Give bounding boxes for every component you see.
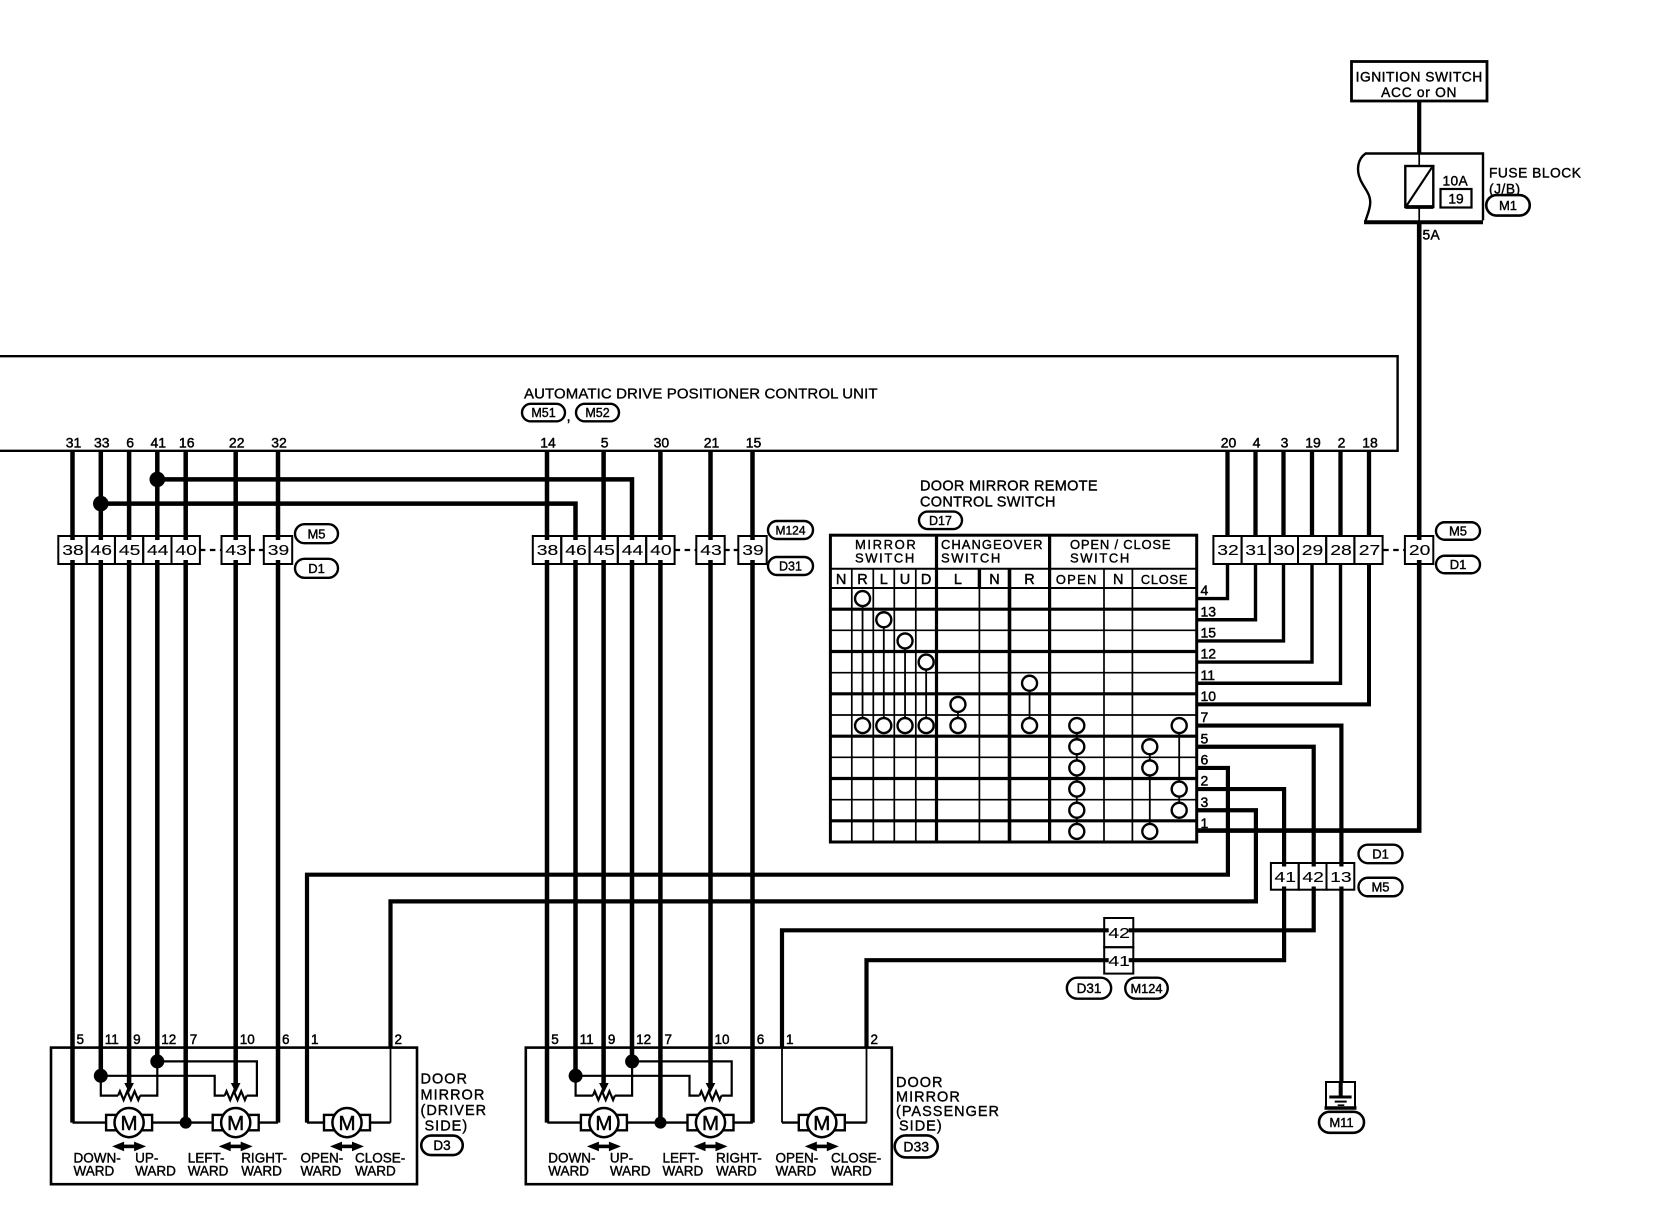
svg-text:30: 30 — [1273, 543, 1295, 559]
connector label M124 (bottom) — [1125, 978, 1168, 999]
svg-text:6: 6 — [1201, 752, 1209, 768]
svg-text:CLOSE: CLOSE — [1141, 572, 1188, 587]
svg-text:10: 10 — [1201, 688, 1217, 704]
svg-text:D1: D1 — [1372, 847, 1389, 862]
svg-text:R: R — [857, 572, 867, 588]
svg-text:46: 46 — [91, 543, 113, 559]
svg-text:1: 1 — [311, 1032, 319, 1047]
svg-text:WARD: WARD — [831, 1164, 872, 1179]
svg-text:L: L — [880, 572, 888, 588]
left/right potentiometer (driver side) — [101, 1061, 257, 1100]
svg-text:27: 27 — [1359, 543, 1381, 559]
svg-text:18: 18 — [1362, 435, 1378, 451]
svg-text:41: 41 — [1275, 870, 1297, 886]
wiper arrow pin9 (passenger side) — [599, 1083, 609, 1093]
connector label D3 — [421, 1136, 463, 1156]
wire pin 3 down to connector — [1281, 451, 1285, 536]
wire pin 2 down to connector — [1338, 451, 1342, 536]
svg-text:20: 20 — [1409, 543, 1431, 559]
svg-text:(DRIVER: (DRIVER — [421, 1103, 488, 1119]
wire pin 19 down to connector — [1310, 451, 1314, 536]
open/close motor wires (passenger side) — [782, 1048, 867, 1123]
svg-text:M52: M52 — [585, 406, 609, 420]
connector cell 39 (passenger) — [738, 536, 766, 564]
svg-text:16: 16 — [179, 435, 195, 451]
svg-text:OPEN: OPEN — [1056, 572, 1098, 587]
wire fuse block down through connector 20 to switch row 1 — [1197, 222, 1420, 830]
connector label D31 (mid) — [768, 557, 813, 575]
fuse block box J/B — [1358, 154, 1483, 223]
svg-text:WARD: WARD — [610, 1164, 651, 1179]
svg-text:7: 7 — [665, 1032, 673, 1047]
svg-text:WARD: WARD — [716, 1164, 757, 1179]
connector label M1 — [1486, 195, 1530, 216]
wire switch row 12 to connector — [1197, 564, 1312, 662]
connector cell 20 — [1405, 536, 1433, 564]
svg-text:M: M — [338, 1112, 355, 1135]
svg-text:7: 7 — [190, 1032, 198, 1047]
left/right motor M (passenger side) — [688, 1108, 734, 1137]
svg-text:D3: D3 — [433, 1138, 450, 1153]
svg-text:M51: M51 — [531, 406, 555, 420]
wire pin5 to passenger mirror pin9 — [601, 451, 606, 1083]
wire switch row 15 to connector — [1197, 564, 1284, 641]
junction node on pin33 wire — [93, 496, 109, 512]
svg-text:4: 4 — [1201, 582, 1209, 598]
svg-text:M124: M124 — [1130, 981, 1162, 996]
connector M124/D31 cells 38 46 45 44 40 (passenger) — [533, 536, 675, 564]
wire pin21 to passenger mirror pin10 — [708, 451, 713, 1083]
svg-text:1: 1 — [1201, 815, 1209, 831]
svg-text:4: 4 — [1253, 435, 1261, 451]
connector label M5 (lower) — [1359, 878, 1403, 897]
connector label D1 (lower) — [1359, 845, 1403, 864]
wire pin32 to driver mirror pin6 — [276, 451, 281, 1123]
svg-text:SWITCH: SWITCH — [855, 551, 916, 566]
svg-text:13: 13 — [1201, 603, 1217, 619]
connector cell 39 (driver) — [264, 536, 292, 564]
svg-text:U: U — [900, 572, 910, 588]
svg-text:32: 32 — [1217, 543, 1239, 559]
svg-text:DOOR: DOOR — [896, 1075, 944, 1091]
fuse number box 19 — [1441, 189, 1472, 208]
door mirror module box (passenger side) — [526, 1048, 892, 1185]
svg-text:30: 30 — [654, 435, 670, 451]
svg-text:M: M — [813, 1112, 830, 1135]
svg-text:WARD: WARD — [135, 1164, 176, 1179]
svg-text:IGNITION SWITCH: IGNITION SWITCH — [1356, 70, 1483, 85]
motor direction labels (driver side) — [74, 1151, 406, 1179]
wire pin30 to passenger mirror pin7 — [658, 451, 663, 1123]
svg-text:M: M — [227, 1112, 244, 1135]
wire switch row 6 to driver mirror pin1 — [307, 768, 1228, 1123]
direction arrow (driver side) — [330, 1142, 364, 1152]
direction arrow (passenger side) — [694, 1142, 728, 1152]
svg-text:39: 39 — [268, 543, 290, 559]
svg-text:5: 5 — [1201, 730, 1209, 746]
svg-text:21: 21 — [704, 435, 720, 451]
ignition switch box ACC or ON — [1352, 62, 1488, 102]
svg-text:N: N — [836, 572, 846, 588]
connector D31/M124 stacked cells 42 41 — [1104, 918, 1133, 974]
svg-text:32: 32 — [271, 435, 287, 451]
svg-text:WARD: WARD — [355, 1164, 396, 1179]
svg-text:41: 41 — [1108, 954, 1130, 970]
svg-text:N: N — [1113, 572, 1123, 588]
ground label M11 — [1319, 1112, 1364, 1133]
svg-text:1: 1 — [786, 1032, 794, 1047]
svg-text:FUSE BLOCK: FUSE BLOCK — [1489, 166, 1582, 181]
svg-text:46: 46 — [565, 543, 587, 559]
svg-text:43: 43 — [225, 543, 247, 559]
svg-text:N: N — [989, 572, 999, 588]
link wire from pin41 junction to connector 44 / passenger pin12 — [157, 479, 632, 1061]
svg-text:20: 20 — [1221, 435, 1237, 451]
svg-text:L: L — [954, 572, 962, 588]
wire pin31 to driver mirror pin5 — [70, 451, 75, 1123]
svg-text:10: 10 — [240, 1032, 255, 1047]
wire switch row 11 to connector — [1197, 564, 1341, 683]
svg-text:38: 38 — [62, 543, 84, 559]
svg-text:11: 11 — [1201, 667, 1216, 683]
wire out of fuse — [1418, 207, 1420, 222]
wire switch row 10 to connector — [1197, 564, 1369, 704]
dashed link 43-39 (driver) — [250, 549, 264, 551]
up/down potentiometer (driver side) — [101, 1061, 158, 1100]
up/down potentiometer (passenger side) — [576, 1061, 633, 1100]
svg-text:D17: D17 — [929, 514, 952, 528]
svg-text:10A: 10A — [1443, 174, 1469, 189]
dashed link 40-43 (passenger) — [675, 549, 697, 551]
svg-text:40: 40 — [650, 543, 672, 559]
svg-text:D: D — [921, 572, 931, 588]
connector label D1 (right) — [1436, 556, 1480, 574]
up/down motor M (driver side) — [106, 1108, 152, 1137]
svg-text:WARD: WARD — [241, 1164, 282, 1179]
svg-text:SWITCH: SWITCH — [941, 551, 1002, 566]
svg-text:11: 11 — [580, 1032, 594, 1047]
svg-text:WARD: WARD — [301, 1164, 342, 1179]
wire pin 18 down to connector — [1367, 451, 1371, 536]
wire pin16 to driver mirror pin7 — [183, 451, 188, 1123]
svg-text:42: 42 — [1302, 870, 1324, 886]
open/close motor M (driver side) — [324, 1108, 370, 1137]
junction node pin12 (driver side) — [150, 1054, 164, 1068]
wire switch row 2 to connector 41 to passenger mirror pin2 — [867, 789, 1285, 1048]
svg-text:19: 19 — [1448, 192, 1464, 207]
door mirror module box (driver side) — [51, 1048, 417, 1185]
label DOOR MIRROR (DRIVER SIDE) — [421, 1072, 488, 1135]
direction arrow (passenger side) — [587, 1142, 621, 1152]
svg-text:2: 2 — [395, 1032, 403, 1047]
junction node on pin41 wire — [150, 472, 166, 488]
svg-text:14: 14 — [540, 435, 556, 451]
svg-text:40: 40 — [175, 543, 197, 559]
svg-text:AUTOMATIC DRIVE POSITIONER CON: AUTOMATIC DRIVE POSITIONER CONTROL UNIT — [524, 386, 878, 403]
svg-text:D31: D31 — [779, 560, 802, 574]
wire pin 20 down to connector — [1225, 451, 1229, 536]
wire pin6 to driver mirror pin9 — [127, 451, 132, 1083]
svg-text:44: 44 — [147, 543, 169, 559]
svg-text:3: 3 — [1281, 435, 1289, 451]
direction arrow (passenger side) — [805, 1142, 839, 1152]
svg-text:WARD: WARD — [548, 1164, 589, 1179]
label DOOR MIRROR (PASSENGER SIDE) — [896, 1075, 1000, 1135]
open/close motor M (passenger side) — [799, 1108, 845, 1137]
svg-text:M5: M5 — [307, 526, 325, 541]
control unit box: AUTOMATIC DRIVE POSITIONER CONTROL UNIT M51/M52 — [0, 356, 1398, 451]
svg-text:WARD: WARD — [74, 1164, 115, 1179]
svg-text:2: 2 — [1338, 435, 1346, 451]
svg-text:M1: M1 — [1499, 198, 1517, 213]
svg-text:45: 45 — [119, 543, 141, 559]
connector cell 43 (passenger) — [696, 536, 724, 564]
connector label M5 (right) — [1436, 522, 1480, 540]
svg-text:SWITCH: SWITCH — [1070, 551, 1131, 566]
svg-text:M5: M5 — [1449, 524, 1467, 539]
connector D1/M5 cells 41 42 13 — [1271, 863, 1354, 890]
svg-text:R: R — [1024, 572, 1034, 588]
connector label D31 (bottom) — [1067, 978, 1111, 999]
svg-text:13: 13 — [1330, 870, 1352, 886]
label FUSE BLOCK (J/B) — [1489, 166, 1582, 197]
label DOOR MIRROR REMOTE CONTROL SWITCH — [920, 479, 1098, 511]
svg-text:D33: D33 — [903, 1138, 929, 1154]
connector label D33 — [895, 1135, 938, 1157]
svg-text:2: 2 — [1201, 773, 1209, 789]
junction node pin11 (driver side) — [94, 1069, 108, 1083]
wire connector 13 into ground — [1339, 1082, 1343, 1097]
junction node pin7/motor (driver side) — [180, 1117, 192, 1129]
wire pin 4 down to connector — [1253, 451, 1257, 536]
wire switch row 7 to connector 13 and ground — [1197, 726, 1342, 1082]
svg-text:31: 31 — [1245, 543, 1267, 559]
svg-text:6: 6 — [757, 1032, 765, 1047]
svg-text:MIRROR: MIRROR — [896, 1089, 961, 1105]
connector label M5 (left) — [295, 524, 338, 543]
svg-text:WARD: WARD — [188, 1164, 229, 1179]
svg-text:6: 6 — [126, 435, 134, 451]
direction arrow (driver side) — [112, 1142, 146, 1152]
svg-text:M5: M5 — [1371, 880, 1389, 895]
svg-text:39: 39 — [742, 543, 764, 559]
svg-text:D31: D31 — [1077, 981, 1102, 996]
direction arrow (driver side) — [219, 1142, 253, 1152]
svg-text:28: 28 — [1330, 543, 1352, 559]
dashed link 40-43 (driver) — [200, 549, 222, 551]
svg-text:DOOR MIRROR REMOTE: DOOR MIRROR REMOTE — [920, 479, 1098, 495]
connector M5/D1 cells 32 31 30 29 28 27 (right) — [1213, 536, 1382, 564]
wire pin14 to passenger mirror pin5 — [545, 451, 550, 1123]
switch table: contact chain lines — [863, 599, 1180, 832]
svg-text:ACC or ON: ACC or ON — [1381, 85, 1457, 100]
svg-text:SIDE): SIDE) — [425, 1119, 469, 1135]
svg-text:CONTROL SWITCH: CONTROL SWITCH — [920, 495, 1056, 511]
motor bus wire (driver side) — [73, 1121, 279, 1123]
svg-text:(PASSENGER: (PASSENGER — [896, 1104, 1000, 1120]
wire switch row 13 to connector — [1197, 564, 1256, 620]
svg-text:WARD: WARD — [776, 1164, 817, 1179]
wire pin41 to driver mirror pin12 — [155, 451, 160, 1062]
svg-text:31: 31 — [66, 435, 82, 451]
svg-text:MIRROR: MIRROR — [421, 1087, 486, 1103]
svg-text:15: 15 — [746, 435, 762, 451]
svg-text:11: 11 — [105, 1032, 119, 1047]
svg-text:DOOR: DOOR — [421, 1072, 469, 1088]
wire switch row 3 to driver mirror pin2 — [391, 810, 1256, 1047]
svg-text:2: 2 — [871, 1032, 879, 1047]
svg-text:M: M — [121, 1112, 138, 1135]
connector M5/D1 cells 38 46 45 44 40 (driver) — [58, 536, 200, 564]
svg-text:42: 42 — [1108, 926, 1130, 942]
junction node pin12 (passenger side) — [625, 1054, 639, 1068]
svg-text:29: 29 — [1302, 543, 1324, 559]
svg-text:12: 12 — [161, 1032, 176, 1047]
svg-text:45: 45 — [593, 543, 615, 559]
dashed link 27-20 — [1383, 549, 1405, 551]
dashed link 43-39 (passenger) — [725, 549, 739, 551]
svg-text:33: 33 — [94, 435, 110, 451]
wire switch row 5 to connector 42 to passenger mirror pin1 — [782, 747, 1314, 1048]
svg-text:,: , — [567, 408, 571, 425]
svg-text:M11: M11 — [1329, 1115, 1353, 1130]
svg-text:5: 5 — [601, 435, 609, 451]
svg-text:7: 7 — [1201, 709, 1209, 725]
connector label M124 (mid) — [768, 521, 813, 539]
wire into fuse — [1418, 154, 1420, 167]
open/close motor wires (driver side) — [307, 1048, 391, 1123]
connector label M52 — [576, 404, 619, 422]
left/right potentiometer (passenger side) — [576, 1061, 732, 1100]
connector label D1 (left) — [295, 559, 338, 578]
svg-text:15: 15 — [1201, 625, 1217, 641]
fuse 10A 19 — [1405, 166, 1433, 207]
svg-text:22: 22 — [229, 435, 245, 451]
svg-text:M: M — [595, 1112, 612, 1135]
svg-text:12: 12 — [636, 1032, 651, 1047]
junction node pin7/motor (passenger side) — [655, 1117, 667, 1129]
svg-text:M124: M124 — [775, 523, 805, 537]
switch table contact circles — [855, 591, 1187, 839]
wiper arrow pin9 (driver side) — [124, 1083, 134, 1093]
svg-text:5A: 5A — [1423, 228, 1441, 243]
switch table header titles — [855, 537, 1171, 566]
motor direction labels (passenger side) — [548, 1151, 881, 1179]
wire switch row 4 to connector — [1197, 564, 1228, 599]
svg-text:12: 12 — [1201, 646, 1217, 662]
link wire from pin33 junction to connector 46 / passenger pin11 — [101, 504, 576, 1076]
connector cell 43 (driver) — [222, 536, 250, 564]
svg-text:43: 43 — [700, 543, 722, 559]
svg-text:9: 9 — [133, 1032, 141, 1047]
svg-text:WARD: WARD — [663, 1164, 704, 1179]
left/right motor M (driver side) — [213, 1108, 259, 1137]
switch table grid — [830, 535, 1196, 842]
junction node pin11 (passenger side) — [569, 1069, 583, 1083]
ground symbol box — [1325, 1082, 1357, 1108]
svg-text:44: 44 — [622, 543, 644, 559]
svg-text:6: 6 — [282, 1032, 290, 1047]
svg-text:M: M — [702, 1112, 719, 1135]
svg-text:38: 38 — [537, 543, 559, 559]
wire pin15 to passenger mirror pin6 — [750, 451, 755, 1123]
switch table column headers N R L U D / L N R / OPEN N CLOSE — [836, 572, 1188, 588]
wiper arrow pin10 (passenger side) — [706, 1083, 716, 1093]
wiper arrow pin10 (driver side) — [231, 1083, 241, 1093]
svg-text:19: 19 — [1305, 435, 1321, 451]
connector label D17 — [919, 512, 962, 530]
svg-text:3: 3 — [1201, 794, 1209, 810]
svg-text:10: 10 — [715, 1032, 730, 1047]
ground bars — [1329, 1097, 1351, 1105]
svg-text:9: 9 — [608, 1032, 616, 1047]
svg-text:SIDE): SIDE) — [899, 1119, 943, 1135]
wire pin22 to driver mirror pin10 — [233, 451, 238, 1083]
svg-text:41: 41 — [151, 435, 167, 451]
connector label M51 — [522, 404, 565, 422]
svg-text:D1: D1 — [1450, 557, 1467, 572]
wire ignition switch to fuse block — [1417, 101, 1421, 154]
wire pin33 to driver mirror pin11 — [99, 451, 104, 1076]
svg-text:D1: D1 — [308, 561, 325, 576]
up/down motor M (passenger side) — [581, 1108, 627, 1137]
motor bus wire (passenger side) — [547, 1121, 753, 1123]
svg-text:5: 5 — [77, 1032, 85, 1047]
svg-text:5: 5 — [551, 1032, 559, 1047]
